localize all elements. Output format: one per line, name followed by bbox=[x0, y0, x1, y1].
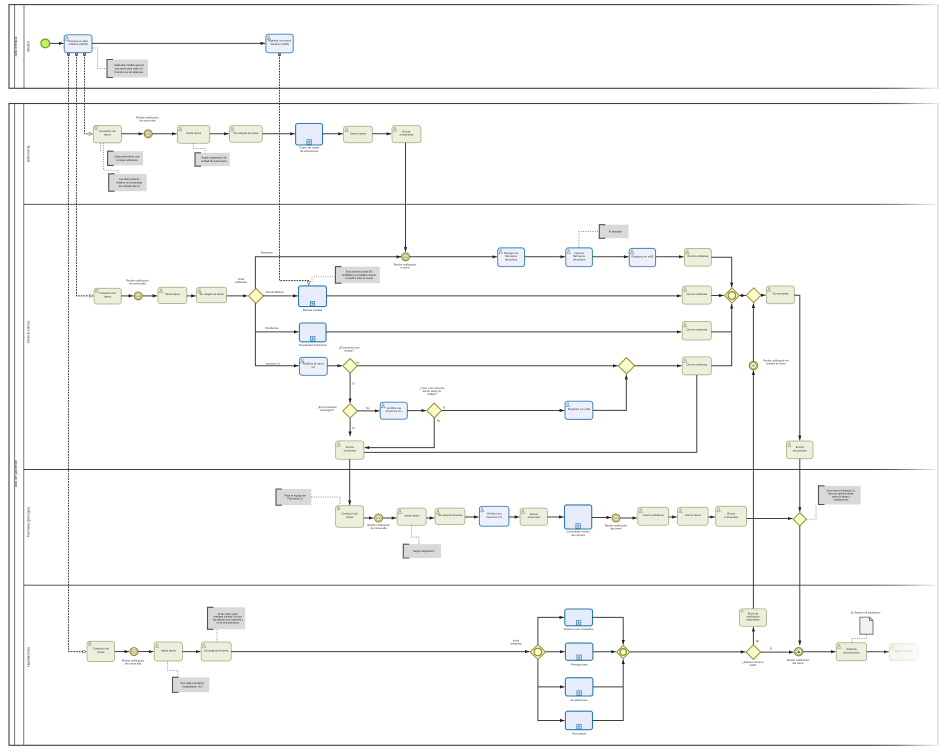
svg-text:Prestaciones: Prestaciones bbox=[571, 663, 588, 667]
label G2 No bbox=[356, 360, 360, 364]
wire LG2 to LG3 bbox=[630, 651, 746, 653]
task F6 Envía encuesta bbox=[520, 508, 547, 525]
wire G6 to S11 bbox=[761, 294, 765, 296]
svg-text:Ingresa la recetamédica (AMS): Ingresa la recetamédica (AMS) bbox=[268, 39, 291, 46]
svg-text:Envío denotificaciónautomática: Envío denotificaciónautomática bbox=[746, 611, 760, 621]
label G5 No bbox=[437, 419, 441, 423]
wire S1 to S2 bbox=[121, 295, 133, 297]
svg-text:Receta Médica: Receta Médica bbox=[266, 290, 284, 294]
association E3 to annotation asignación bbox=[194, 143, 206, 153]
svg-text:No: No bbox=[356, 360, 360, 364]
label F8 bbox=[605, 524, 628, 531]
svg-text:Farmacia Quirúrgica: Farmacia Quirúrgica bbox=[26, 507, 30, 537]
wire F7 to F8 bbox=[592, 517, 611, 519]
gateway FG bbox=[793, 513, 806, 526]
wire IG to G6 bbox=[739, 295, 745, 297]
label E2 Recibe notificación de nueva alta bbox=[136, 115, 159, 122]
svg-text:Si: Si bbox=[443, 405, 446, 409]
svg-text:Ingresa el altamédica (AMS): Ingresa el altamédica (AMS) bbox=[68, 39, 88, 46]
label Pendientes bbox=[265, 326, 279, 330]
wire F2 to F3 bbox=[383, 517, 396, 519]
label LE bbox=[787, 658, 810, 665]
annotation Para el equipo de Farmacia Cx bbox=[276, 489, 311, 505]
label F2 bbox=[367, 523, 390, 530]
wire B1 to B2 bbox=[525, 256, 565, 258]
label G2 question bbox=[339, 346, 360, 353]
svg-text:¿El paciente tuvocirugía?: ¿El paciente tuvocirugía? bbox=[339, 346, 360, 353]
subprocess L8 Honorarios bbox=[565, 711, 592, 735]
association FG to annotation bbox=[807, 505, 816, 519]
label G3 No bbox=[366, 406, 370, 410]
task F1 Creación de tarea bbox=[336, 506, 364, 528]
association annotation to receta arrow bbox=[312, 277, 335, 282]
association T1 to annotation bbox=[92, 48, 107, 69]
svg-text:Cierra tarea: Cierra tarea bbox=[350, 131, 366, 135]
svg-text:Ampliaciones: Ampliaciones bbox=[571, 698, 589, 702]
wire E2 to E3 bbox=[153, 133, 177, 135]
lane label Farmacia Quirúrgica bbox=[26, 507, 30, 537]
svg-text:Fármacos: Fármacos bbox=[261, 250, 274, 254]
task F3 Inicia tarea bbox=[397, 508, 426, 525]
task C4 Cierra subtarea row4 bbox=[682, 357, 711, 375]
message flow T2 to Receta médica subprocess bbox=[278, 53, 308, 285]
wire G1 down Insumos branch bbox=[255, 332, 298, 366]
svg-text:Pendientes Farmacia: Pendientes Farmacia bbox=[299, 343, 327, 347]
wire S6 to C3 bbox=[326, 331, 681, 333]
label G3 Si bbox=[352, 426, 355, 430]
task L4 Se asigna la tarea bbox=[201, 642, 231, 661]
message flow T1 to Servicio Creación de tarea bbox=[75, 53, 93, 296]
svg-text:No: No bbox=[756, 639, 760, 643]
svg-text:Si: Si bbox=[770, 647, 773, 651]
gateway G2 paciente tuvo cirugía bbox=[343, 359, 357, 373]
svg-text:No: No bbox=[366, 406, 370, 410]
task C3 Cierra subtarea row3 bbox=[682, 321, 711, 340]
svg-text:No: No bbox=[437, 419, 441, 423]
task E4 Se asigna la tarea bbox=[230, 126, 263, 143]
task B3 Registra en sAE bbox=[629, 248, 655, 266]
svg-text:Se asigna la tarea: Se asigna la tarea bbox=[204, 648, 229, 652]
wire C2 to IG bbox=[711, 295, 723, 297]
label G5 Si bbox=[443, 405, 446, 409]
lane label Médico bbox=[26, 41, 30, 52]
task S8 Verifica los insumos Cx bbox=[380, 402, 407, 419]
gateway IG inclusive merge bbox=[724, 288, 739, 303]
svg-text:Si: Si bbox=[352, 426, 355, 430]
svg-text:Las altas estaránvisibles en l: Las altas estaránvisibles en la bandejad… bbox=[116, 177, 142, 188]
wire L10 to L11 bbox=[867, 651, 889, 653]
svg-text:Ingresafármacosdevueltos: Ingresafármacosdevueltos bbox=[573, 251, 586, 261]
svg-text:Se asigna la tarea: Se asigna la tarea bbox=[234, 131, 259, 135]
task F10 Cierra tarea bbox=[678, 507, 709, 525]
task L10 Adjunta documentos bbox=[836, 643, 866, 661]
task S3 Inicia tarea bbox=[158, 287, 187, 303]
svg-text:¿Factura cierra sutotal?: ¿Factura cierra sutotal? bbox=[742, 660, 764, 667]
label G3 question bbox=[317, 405, 337, 412]
wire S12 to FG bbox=[799, 459, 801, 512]
gateway LG1 inclusive split bbox=[530, 644, 545, 659]
wire LG1 to L7 bbox=[538, 660, 565, 687]
wire F9 to F10 bbox=[669, 516, 677, 518]
subprocess L7 Ampliaciones bbox=[565, 678, 593, 702]
task T1 Ingresa el alta médica (AMS) bbox=[64, 35, 92, 53]
wire FG down to LE bbox=[799, 526, 801, 645]
wire F1 to F2 bbox=[364, 517, 374, 519]
wire C4 to S10 loop bbox=[364, 375, 697, 453]
subprocess L6 Prestaciones bbox=[565, 643, 593, 667]
pool right edges faint bbox=[937, 5, 939, 746]
task B1 Recoge los fármacos devueltos bbox=[498, 248, 525, 267]
wire F6 to F7 bbox=[547, 516, 563, 518]
association annotation to F1 bbox=[311, 497, 340, 505]
message flow T1 to Liquidaciones Creación de tarea bbox=[67, 53, 86, 651]
label LG1 Inicia subtareas bbox=[510, 638, 522, 645]
wire G3 Si to S10 bbox=[349, 418, 351, 436]
label LG3 No bbox=[756, 639, 760, 643]
wire start to T1 bbox=[50, 42, 64, 44]
association B2 to Al almacén bbox=[579, 232, 599, 248]
wire LG1 to L8 bbox=[538, 687, 565, 721]
svg-text:Médico: Médico bbox=[26, 41, 30, 52]
wire S9 to G4 bbox=[593, 375, 627, 411]
svg-text:Cada tarea tiene unao varias s: Cada tarea tiene unao varias subtareas bbox=[114, 155, 140, 162]
svg-text:Cierre de notasde enfermería: Cierre de notasde enfermería bbox=[299, 146, 319, 153]
svg-text:Cada alta médica generauna tar: Cada alta médica generauna tarea para ca… bbox=[114, 63, 145, 74]
wire G1 up Fármacos branch bbox=[255, 257, 401, 289]
label S2 Recibe notificación de nueva alta bbox=[126, 279, 149, 286]
wire E1 to E2 bbox=[121, 133, 143, 135]
wire L1 to L2 bbox=[115, 651, 129, 653]
task C2 Cierra subtarea row2 bbox=[682, 286, 711, 304]
wire E3 to E4 bbox=[210, 133, 229, 135]
task S10 Envía encuesta bbox=[336, 441, 364, 459]
annotation Cada tarea tiene una o varias subtareas bbox=[108, 151, 143, 165]
association L4 to annotation líder bbox=[216, 629, 218, 642]
event E2 recibe notificación bbox=[144, 130, 152, 138]
task F9 Cierra subtarea bbox=[638, 507, 669, 525]
wire F8 to F9 bbox=[620, 517, 637, 519]
label Fármacos bbox=[261, 250, 274, 254]
svg-text:Gastos a ser revisados: Gastos a ser revisados bbox=[564, 627, 594, 631]
wire G5 No to S10 bbox=[365, 418, 435, 448]
svg-text:Inicia tarea: Inicia tarea bbox=[165, 292, 180, 296]
svg-text:Receta médica: Receta médica bbox=[303, 308, 323, 312]
svg-text:Recibe notificaciónde nueva al: Recibe notificaciónde nueva alta bbox=[122, 658, 145, 665]
right fade overlay bbox=[872, 0, 950, 753]
wire C1 to IG bbox=[711, 257, 731, 287]
label document bbox=[851, 611, 881, 615]
event F2 bbox=[375, 514, 383, 522]
wire F4 to F5 bbox=[465, 516, 479, 518]
lane label Liquidaciones bbox=[26, 647, 30, 668]
svg-text:Alta de paciente: Alta de paciente bbox=[14, 460, 18, 487]
wire S7 to G2 bbox=[327, 365, 342, 367]
svg-text:Honorarios: Honorarios bbox=[572, 731, 587, 735]
task L3 Inicia tarea bbox=[154, 642, 182, 661]
wire L9 up to ME1 bbox=[752, 371, 754, 609]
svg-text:Pendientes: Pendientes bbox=[265, 326, 279, 330]
wire L8 to LG2 bbox=[593, 687, 624, 721]
gateway G4 merge insumos bbox=[618, 358, 634, 374]
svg-text:Servicio Clínico: Servicio Clínico bbox=[26, 320, 30, 343]
wire L4 to LG1 bbox=[231, 651, 529, 653]
svg-text:Verifica losinsumos Cx: Verifica losinsumos Cx bbox=[386, 406, 402, 413]
lane label Enfermería bbox=[26, 145, 30, 161]
label LG3 question bbox=[742, 660, 764, 667]
wire C4 to IG bbox=[711, 332, 731, 366]
svg-text:Cierra subtarea: Cierra subtarea bbox=[643, 513, 664, 517]
annotation Las altas estarán visibles bbox=[109, 174, 147, 191]
svg-text:Al almacén: Al almacén bbox=[609, 229, 623, 233]
svg-text:Se asigna la tarea: Se asigna la tarea bbox=[199, 292, 224, 296]
pool label Alta de paciente bbox=[14, 460, 18, 487]
event EM recibe notificación a cierre bbox=[402, 253, 410, 261]
task S4 Se asigna la tarea bbox=[197, 287, 227, 303]
wire E5 to E6 bbox=[323, 133, 343, 135]
annotation Por cada cuenta bbox=[173, 677, 210, 692]
svg-text:Recibe notificaciónde nueva al: Recibe notificaciónde nueva alta bbox=[367, 523, 390, 530]
wire ME1 to G6 bbox=[752, 303, 754, 361]
wire S3 to S4 bbox=[187, 295, 196, 297]
task E7 Envía encuestas bbox=[392, 126, 421, 143]
event LE bbox=[795, 648, 803, 656]
association L10 to document bbox=[852, 635, 866, 643]
label Receta Médica bbox=[266, 290, 284, 294]
svg-text:Recibe notificacióndel cierre: Recibe notificacióndel cierre bbox=[787, 658, 810, 665]
wire LE to L10 bbox=[803, 651, 835, 653]
association E1 to annotation bandeja bbox=[104, 143, 119, 174]
annotation Cada alta médica genera bbox=[107, 60, 148, 78]
svg-text:Inicia tarea: Inicia tarea bbox=[186, 131, 201, 135]
label LG3 Si bbox=[770, 647, 773, 651]
label L2 bbox=[122, 658, 145, 665]
svg-text:Cierra subtarea: Cierra subtarea bbox=[687, 254, 708, 258]
svg-text:Recibe notificación desubidas: Recibe notificación desubidas de cierre bbox=[763, 359, 789, 366]
svg-text:Recibe notificacióndel cierre: Recibe notificacióndel cierre bbox=[605, 524, 628, 531]
svg-text:Si: Si bbox=[352, 381, 355, 385]
label EM recibe notificación bbox=[394, 262, 417, 269]
wire E6 to E7 bbox=[372, 133, 391, 135]
svg-text:Según asignación deunidad de e: Según asignación deunidad de enfermería bbox=[201, 156, 227, 163]
svg-text:Cierra tarea: Cierra tarea bbox=[685, 513, 701, 517]
wire S11 to S12 bbox=[794, 295, 800, 440]
task L1 Creación de tarea bbox=[87, 641, 115, 661]
label ME1 bbox=[763, 359, 789, 366]
subprocess L5 Gastos bbox=[564, 609, 594, 631]
association E1 to annotation subtareas bbox=[100, 143, 102, 151]
wire S4 to G1 bbox=[227, 295, 248, 297]
association F3 to Según asignación bbox=[412, 525, 420, 544]
wire LG3 No to L9 bbox=[752, 627, 754, 645]
svg-text:Iniciasubtareas: Iniciasubtareas bbox=[510, 638, 522, 645]
wire F5 to F6 bbox=[509, 516, 519, 518]
wire S10 down to F1 bbox=[349, 459, 351, 505]
label Insumos Cx bbox=[266, 361, 281, 365]
gateway G3 paciente oncológico bbox=[343, 404, 357, 418]
wire B2 to B3 bbox=[592, 256, 628, 258]
svg-text:Cierra tarea: Cierra tarea bbox=[772, 292, 788, 296]
task S9 Registra en sAE bbox=[565, 401, 593, 419]
task C1 Cierra subtarea row1 bbox=[684, 248, 711, 266]
svg-text:Cierra subtarea: Cierra subtarea bbox=[686, 292, 707, 296]
wire E7 down to event cierre bbox=[405, 143, 407, 252]
wire LG1 to L5 bbox=[538, 617, 564, 644]
event L2 bbox=[130, 648, 138, 656]
wire F3 to F4 bbox=[426, 517, 434, 519]
wire LG3 Si to LE bbox=[761, 651, 794, 653]
svg-text:Alta médica: Alta médica bbox=[14, 36, 18, 57]
task S7 Notifica al turno Cx bbox=[299, 357, 327, 375]
annotation Según asignación F bbox=[403, 544, 441, 558]
wire S2 to S3 bbox=[143, 295, 158, 297]
wire EM to B1 bbox=[410, 256, 497, 258]
svg-text:Insumos Cx: Insumos Cx bbox=[266, 361, 281, 365]
svg-text:Se asigna la tarea: Se asigna la tarea bbox=[438, 513, 463, 517]
svg-text:Verifica losinsumos Cx: Verifica losinsumos Cx bbox=[486, 511, 502, 519]
wire G3 No to S8 bbox=[357, 410, 379, 412]
wire E4 to E5 bbox=[262, 133, 295, 135]
message flow T1 to Enfermería Creación de tarea bbox=[83, 53, 92, 134]
annotation El líder debe poder reasignar bbox=[208, 607, 246, 629]
lane label Servicio Clínico bbox=[26, 320, 30, 343]
gateway G1 split subtareas bbox=[249, 288, 264, 303]
wire L2 to L3 bbox=[138, 651, 153, 653]
subprocess F7 Consolidar envíos de compra bbox=[565, 505, 592, 537]
pool Alta médica (frame) bbox=[9, 5, 938, 89]
wire B3 to C1 bbox=[656, 256, 684, 258]
label G2 Si bbox=[352, 381, 355, 385]
wire G2 No to G4 bbox=[357, 365, 617, 367]
task E3 Inicia tarea bbox=[177, 125, 209, 143]
task L11 Cierra cuenta (faded) bbox=[890, 644, 919, 661]
svg-text:Recibe notificaciónde nueva al: Recibe notificaciónde nueva alta bbox=[126, 279, 149, 286]
event S2 recibe notificación bbox=[134, 292, 142, 300]
document Ej Reporte de liquidación bbox=[860, 617, 873, 634]
svg-text:Enfermería: Enfermería bbox=[26, 145, 30, 161]
gateway LG3 factura bbox=[746, 645, 761, 660]
task B2 Ingresa fármacos devueltos bbox=[566, 248, 593, 267]
wire C3 to IG bbox=[711, 304, 731, 332]
svg-text:Inicia tarea: Inicia tarea bbox=[404, 514, 419, 518]
svg-text:Registra en sAE: Registra en sAE bbox=[568, 407, 590, 411]
svg-text:Cierra subtarea: Cierra subtarea bbox=[686, 328, 707, 332]
svg-text:Iniciasubtareas: Iniciasubtareas bbox=[235, 277, 247, 284]
wire L5 to LG2 bbox=[593, 617, 624, 644]
task F11 Envía encuestas bbox=[716, 506, 747, 526]
svg-text:Consolidar envíosde compra: Consolidar envíosde compra bbox=[567, 530, 591, 537]
wire F10 to F11 bbox=[708, 516, 715, 518]
task F4 Se asigna la tarea bbox=[435, 508, 465, 524]
svg-text:Inicia tarea: Inicia tarea bbox=[161, 648, 176, 652]
start event bbox=[41, 39, 50, 48]
wire G1 down Pendientes branch bbox=[255, 303, 298, 332]
svg-text:Recibe notificaciónde nueva al: Recibe notificaciónde nueva alta bbox=[136, 115, 159, 122]
annotation Esta subtarea inicia EN ESPERA bbox=[335, 267, 379, 284]
gateway G6 bbox=[746, 288, 761, 303]
task E6 Cierra tarea bbox=[344, 126, 373, 143]
svg-text:Cierra subtarea: Cierra subtarea bbox=[686, 363, 707, 367]
wire L3 to L4 bbox=[182, 651, 200, 653]
task E1 Creación de tarea bbox=[93, 125, 121, 142]
task T2 Ingresa la receta médica (AMS) bbox=[266, 34, 293, 53]
task L9 Envío de notificación automática bbox=[739, 609, 766, 626]
wire F11 to FG bbox=[747, 518, 793, 520]
task S12 Envía encuestas bbox=[786, 441, 813, 459]
wire LG1 to L6 bbox=[546, 651, 565, 653]
wire S8 to G5 bbox=[407, 410, 426, 412]
annotation Según asignación de unidad bbox=[195, 153, 230, 166]
event ME1 recibe notificación subidas bbox=[749, 361, 757, 369]
svg-text:Registra en sAE: Registra en sAE bbox=[631, 254, 653, 258]
wire G5 Si to S9 bbox=[442, 410, 565, 412]
svg-text:¿Tuvo o los insumostienen tari: ¿Tuvo o los insumostienen tarifa y/ocódi… bbox=[420, 386, 445, 396]
subprocess S5 Receta médica bbox=[299, 286, 327, 312]
svg-text:¿Es un pacienteoncológico?: ¿Es un pacienteoncológico? bbox=[317, 405, 337, 412]
task S11 Cierra tarea bbox=[766, 286, 794, 304]
label Inicia subtareas G1 bbox=[235, 277, 247, 284]
svg-text:Liquidaciones: Liquidaciones bbox=[26, 647, 30, 668]
task S1 Creación de tarea bbox=[94, 288, 121, 304]
annotation Al almacén bbox=[599, 225, 628, 239]
subprocess E5 Cierre de notas de enfermería bbox=[296, 124, 323, 153]
wire G2 Si down to G3 bbox=[349, 373, 351, 403]
wire L7 to LG2 bbox=[593, 659, 623, 687]
wire S5 to C2 bbox=[327, 295, 682, 297]
label G5 question bbox=[420, 386, 445, 396]
event F8 bbox=[612, 514, 620, 522]
svg-text:Según asignación: Según asignación bbox=[413, 549, 435, 553]
wire T1 to T2 bbox=[92, 42, 265, 44]
svg-text:Recibe notificacióna cierre: Recibe notificacióna cierre bbox=[394, 262, 417, 269]
gateway LG2 inclusive merge bbox=[617, 645, 630, 658]
svg-text:Recoge losfármacosdevueltos: Recoge losfármacosdevueltos bbox=[504, 251, 519, 261]
task F5 Verifica los insumos Cx bbox=[479, 506, 509, 526]
wire G4 to C4 bbox=[635, 365, 682, 367]
wire G1 right Receta branch bbox=[263, 295, 298, 297]
svg-text:Por cada cuenta/Cxhospitalaria: Por cada cuenta/Cxhospitalaria, UCI bbox=[181, 681, 205, 688]
gateway G5 insumos tarifa código bbox=[427, 403, 442, 418]
subprocess S6 Pendientes Farmacia bbox=[299, 323, 327, 347]
wire L6 to LG2 bbox=[593, 651, 616, 653]
svg-text:Esta subtarea inicia ENESPERA: Esta subtarea inicia ENESPERA y se habil… bbox=[342, 270, 376, 280]
association L3 to annotation cuenta bbox=[168, 661, 179, 677]
pool label Alta médica bbox=[14, 36, 18, 57]
annotation Si se cierra a Farmacia Cx bbox=[819, 486, 861, 505]
